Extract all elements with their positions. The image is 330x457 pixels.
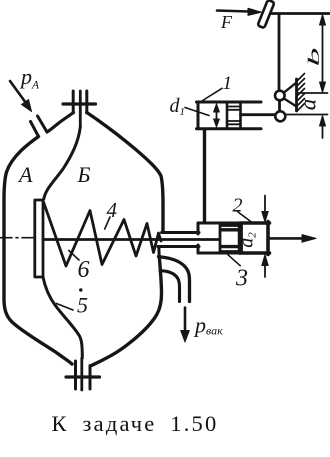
inner wall of chamber B: curve from top pipe to membrane [44,127,81,199]
d1 internal dimension arrow [214,104,220,127]
pA arrow [10,81,32,112]
support bracket legs [284,83,297,93]
extension line at pivot [298,92,328,94]
spring rod from membrane to piston [43,238,219,241]
svg-text:b: b [306,48,323,67]
lower cylinder left wall (with rod opening) [197,223,200,234]
link pin circle [275,111,285,121]
outlet elbow pipe outer wall [159,257,190,302]
label d1 with leader [170,95,210,118]
label 6 with leader [69,251,90,284]
lever vertical bar [278,15,281,91]
svg-text:F: F [220,12,233,32]
svg-text:А: А [17,162,33,187]
upper cylinder bottom wall [197,127,262,130]
centre dot [79,288,82,291]
handle plate (tilted) [257,0,274,28]
dimension a lower arrow [320,116,326,139]
vessel wall bottom-right [92,259,162,366]
label 4 with leader [105,198,118,229]
lower cylinder bottom wall [198,252,240,255]
svg-text:pA: pA [19,64,40,92]
lower cylinder right wall [266,222,270,255]
svg-text:3: 3 [235,266,248,292]
inner wall of chamber B: curve from membrane to bottom pipe [43,277,82,358]
svg-text:1: 1 [223,73,233,94]
piston rod output arrow [270,235,317,243]
rod guide lower line [158,245,199,248]
connecting pipe between cylinders [203,131,206,223]
spring (item 4) [44,202,162,266]
vessel bottom pipe flange [66,358,100,390]
label 1 with leader [203,73,232,101]
svg-text:6: 6 [78,257,90,283]
label 5 with leader [57,293,89,318]
force arrow F [217,8,262,15]
pivot pin circle [275,91,285,101]
vessel outer wall: left shoulder upper segment [47,113,74,133]
svg-text:a: a [296,99,321,111]
inlet stub pipe wall lower [31,122,39,137]
vessel outer wall: left side down to bottom pipe [4,137,72,365]
upper piston rod to link [241,113,276,116]
d2 dimension arrow bottom [262,255,268,278]
label 2 with leader [233,195,253,223]
svg-text:d1: d1 [170,95,186,118]
caption [0,411,270,437]
upper piston (item 1) [227,104,241,128]
svg-text:Б: Б [77,162,91,187]
rod guide upper line [162,231,200,234]
centre line (dash-dot) [0,237,34,239]
inner wall pipe line (chamber B top) [79,91,82,127]
svg-text:4: 4 [107,198,118,222]
upper cylinder (d1): top wall [197,101,262,104]
vessel right shoulder and right wall [87,113,163,232]
lower piston (item 3) [220,225,242,253]
membrane (item 6) [35,200,43,277]
support wall [295,79,298,111]
upper cylinder left wall [197,102,200,129]
vessel top pipe flange [63,91,96,113]
d2 dimension arrow top [262,196,268,223]
svg-text:2: 2 [233,195,243,217]
dimension b line with arrows [320,15,326,93]
inlet stub pipe wall upper [38,116,48,132]
top bar [268,12,329,15]
link extension line to dimension [286,114,328,116]
wall stub below opening [157,247,161,260]
p_vak arrow [181,308,190,343]
support hatching [297,74,305,112]
label 3 with leader [228,255,248,292]
svg-text:5: 5 [77,293,88,318]
svg-text:pвак: pвак [193,313,223,338]
outlet elbow pipe inner wall [160,271,180,302]
lower cylinder (2): top wall [198,222,240,225]
